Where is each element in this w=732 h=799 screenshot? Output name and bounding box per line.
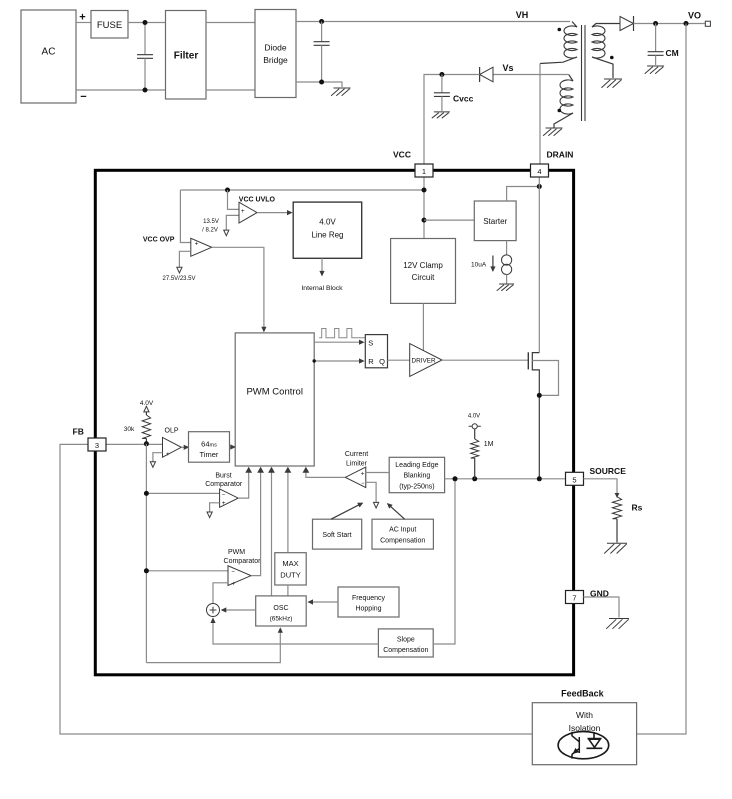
Vs rectifier diode <box>480 67 493 82</box>
wire 12V clamp to driver <box>422 303 424 351</box>
wire bridge negative to ground <box>296 82 342 87</box>
wire VCC pin column <box>423 177 425 239</box>
svg-text:AC: AC <box>42 47 56 58</box>
30k value label <box>124 426 135 433</box>
svg-text:12V Clamp: 12V Clamp <box>403 261 443 270</box>
driver buffer <box>410 344 442 377</box>
junction FB node <box>144 441 149 446</box>
VCC OVP threshold reference <box>177 251 191 273</box>
comparator OLP <box>163 437 182 458</box>
junction VCC column at top net <box>422 188 427 193</box>
svg-text:DRIVER: DRIVER <box>412 358 437 365</box>
pin 1 VCC <box>415 164 433 177</box>
summing mixer <box>207 604 220 617</box>
junction sense row at slope tap <box>453 476 458 481</box>
wire VCC to starter <box>424 219 474 221</box>
svg-text:With: With <box>576 710 593 720</box>
block PWM Control <box>235 333 314 466</box>
wire OLP to timer <box>181 445 189 450</box>
wire PWM comparator output to PWM control <box>251 467 264 576</box>
junction sense row at MOSFET source <box>537 476 542 481</box>
auxiliary polarity dot <box>558 109 562 113</box>
FeedBack label <box>561 689 605 699</box>
plus terminal label <box>79 12 85 24</box>
svg-text:1M: 1M <box>484 441 494 448</box>
svg-text:DUTY: DUTY <box>280 571 300 580</box>
10uA direction arrow <box>490 256 495 273</box>
Burst Comparator label <box>205 473 243 488</box>
ground at Cvcc <box>432 112 450 118</box>
primary polarity dot <box>558 28 562 32</box>
wire to VCC OVP input <box>180 190 190 243</box>
junction FB column at PWM comparator <box>144 568 149 573</box>
svg-text:Hopping: Hopping <box>355 606 381 613</box>
svg-text:FB: FB <box>73 427 84 437</box>
svg-text:Compensation: Compensation <box>380 538 425 545</box>
svg-text:−: − <box>231 569 235 575</box>
pin 3 FB <box>88 438 106 451</box>
svg-text:4: 4 <box>537 167 541 176</box>
block Frequency Hopping <box>338 587 399 617</box>
wire aux winding to Vs diode <box>493 74 569 76</box>
junction at CM capacitor <box>653 21 658 26</box>
svg-text:+: + <box>241 208 245 215</box>
output rectifier diode <box>620 16 634 31</box>
fuse F1 <box>91 11 128 39</box>
CM value label <box>666 48 679 58</box>
wire FUSE to Filter (top rail) <box>128 22 166 24</box>
AC source block <box>21 10 76 103</box>
wire OSC to mixer <box>221 607 256 612</box>
block MAX DUTY <box>275 553 306 585</box>
wire AC to Filter (bottom rail) <box>76 89 166 91</box>
svg-text:DRAIN: DRAIN <box>547 150 574 160</box>
MOSFET body connection <box>532 361 558 396</box>
svg-text:5: 5 <box>572 475 576 484</box>
OVP threshold value label <box>162 276 195 282</box>
junction top rail at filter cap <box>143 20 148 25</box>
svg-text:Line Reg: Line Reg <box>311 231 343 240</box>
wire FB node to PWM comparator <box>146 570 228 572</box>
comparator PWM <box>228 566 251 588</box>
power MOSFET <box>528 352 539 479</box>
svg-text:Limiter: Limiter <box>346 460 368 467</box>
pulse train symbol <box>319 329 368 338</box>
soft start arrow <box>331 503 363 520</box>
resistor 1M <box>471 429 479 479</box>
diode bridge block <box>255 10 296 98</box>
resistor 30k <box>142 412 150 444</box>
svg-text:MAX: MAX <box>282 559 298 568</box>
svg-text:4.0V: 4.0V <box>140 400 154 407</box>
wire current limiter output to PWM control <box>303 467 346 478</box>
wire PWM comparator plus input from mixer <box>213 583 228 604</box>
svg-text:Vs: Vs <box>502 63 513 73</box>
current limiter reference <box>366 482 379 508</box>
svg-text:30k: 30k <box>124 426 135 433</box>
block Leading Edge Blanking <box>389 457 444 492</box>
wire drain column to MOSFET <box>538 177 540 353</box>
wire GND pin to ground <box>584 597 620 618</box>
svg-text:VH: VH <box>516 10 529 20</box>
wire slope compensation to mixer <box>210 617 378 644</box>
node VH label <box>516 10 529 20</box>
wire Filter to Diode Bridge (bottom) <box>206 89 255 91</box>
VO output terminal <box>705 21 710 26</box>
svg-text:27.5V/23.5V: 27.5V/23.5V <box>162 276 195 282</box>
comparator VCC UVLO <box>239 202 257 223</box>
wire LEB to current limiter <box>366 472 389 474</box>
svg-text:Internal Block: Internal Block <box>301 285 343 292</box>
junction VCC column at starter branch <box>422 218 427 223</box>
VCC UVLO label <box>239 196 276 203</box>
svg-text:Diode: Diode <box>264 43 286 53</box>
current source 10uA <box>502 241 512 284</box>
wire VH rail (bridge output to transformer primary) <box>296 21 570 23</box>
ground at diode bridge <box>331 88 350 96</box>
VCC pin label <box>393 150 411 160</box>
wire VO to feedback block <box>637 24 686 735</box>
svg-text:Starter: Starter <box>483 217 507 226</box>
wire OSC to PWM control <box>268 467 275 596</box>
junction VH rail at bulk cap <box>319 19 324 24</box>
wire frequency hopping to OSC <box>307 599 338 604</box>
svg-text:VCC OVP: VCC OVP <box>143 236 175 243</box>
svg-text:OSC: OSC <box>273 605 288 612</box>
pin 7 GND <box>566 591 584 604</box>
svg-text:CM: CM <box>666 48 679 58</box>
svg-text:13.5V: 13.5V <box>203 219 219 225</box>
block Slope Compensation <box>378 629 433 657</box>
svg-text:−: − <box>80 91 86 103</box>
AC input compensation arrow <box>387 503 405 519</box>
1M supply terminal <box>469 424 481 429</box>
block Soft Start <box>313 519 362 549</box>
line filter block <box>166 11 207 100</box>
svg-text:Slope: Slope <box>397 637 415 644</box>
junction sense row at 1M <box>472 476 477 481</box>
wire driver to gate <box>442 359 528 361</box>
ground at CM <box>645 66 664 74</box>
svg-text:VCC: VCC <box>393 150 411 160</box>
svg-text:S: S <box>368 338 373 347</box>
wire Vs diode to VCC pin <box>424 75 480 165</box>
capacitor CM <box>648 24 664 66</box>
wire OVP output to PWM control <box>212 247 267 332</box>
svg-text:OLP: OLP <box>165 427 179 434</box>
bulk capacitor <box>314 22 330 83</box>
svg-text:AC Input: AC Input <box>389 527 416 534</box>
wire latch Q to driver <box>388 359 410 361</box>
secondary polarity dot <box>610 56 614 60</box>
wire FB node down the left column <box>145 444 147 663</box>
svg-text:Leading Edge: Leading Edge <box>395 462 438 469</box>
wire slope compensation to current sense node <box>433 479 455 644</box>
current arrow into Rs <box>615 493 620 498</box>
ground at Rs <box>604 543 627 553</box>
svg-text:Bridge: Bridge <box>263 55 288 65</box>
arrow line reg to internal block <box>319 258 324 276</box>
block AC Input Compensation <box>372 519 433 549</box>
wire FB column to OSC bottom <box>146 627 283 662</box>
svg-text:Comparator: Comparator <box>224 558 262 565</box>
svg-text:Comparator: Comparator <box>205 481 243 488</box>
pin 4 DRAIN <box>531 164 549 177</box>
Cvcc value label <box>453 94 474 104</box>
junction at Cvcc <box>439 72 444 77</box>
SOURCE pin label <box>590 466 627 476</box>
node Vs label <box>502 63 513 73</box>
junction bottom rail at filter cap <box>143 88 148 93</box>
FB pull-up supply arrow <box>144 406 149 412</box>
svg-text:−: − <box>361 481 365 487</box>
IC body outline <box>95 170 573 675</box>
svg-text:Cvcc: Cvcc <box>453 94 474 104</box>
resistor Rs <box>612 497 621 543</box>
svg-text:VCC UVLO: VCC UVLO <box>239 196 276 203</box>
wire PWM control to latch S <box>314 340 364 345</box>
ground at auxiliary winding <box>543 128 562 136</box>
oscillator OSC 65kHz <box>256 596 307 626</box>
10uA value label <box>471 262 487 269</box>
svg-text:VO: VO <box>688 11 701 21</box>
svg-text:(typ-250ns): (typ-250ns) <box>399 484 434 491</box>
wire UVLO output to line regulator <box>257 210 293 215</box>
svg-text:−: − <box>222 492 226 498</box>
transformer secondary winding <box>592 24 620 79</box>
junction at VO feedback tap <box>684 21 689 26</box>
PWM Comparator label <box>224 549 262 565</box>
1M value label <box>484 441 494 448</box>
svg-text:3: 3 <box>95 441 99 450</box>
wire diode to VO terminal <box>634 23 706 25</box>
svg-text:Q: Q <box>379 357 385 366</box>
svg-text:Filter: Filter <box>174 51 199 62</box>
OLP reference <box>150 453 162 468</box>
feedback isolation block <box>532 703 636 765</box>
node VO label <box>688 11 701 21</box>
svg-text:10uA: 10uA <box>471 262 487 269</box>
svg-text:Soft Start: Soft Start <box>322 532 351 539</box>
capacitor across line <box>137 23 153 91</box>
junction FB column at burst <box>144 491 149 496</box>
wire burst output to PWM control <box>238 467 252 498</box>
comparator Current Limiter <box>345 467 366 488</box>
wire to VCC UVLO input <box>228 190 240 209</box>
wire primary bottom to DRAIN pin <box>539 64 541 165</box>
svg-text:Current: Current <box>345 451 368 458</box>
transformer core <box>582 25 586 121</box>
wire VCC internal top net <box>180 189 424 191</box>
svg-text:Timer: Timer <box>200 450 219 459</box>
optocoupler <box>558 732 609 759</box>
minus terminal label <box>80 91 86 103</box>
svg-text:R: R <box>368 357 374 366</box>
svg-text:Compensation: Compensation <box>383 647 428 654</box>
ground at GND pin <box>606 619 629 629</box>
wire FB node to burst comparator <box>146 492 219 494</box>
VCC OVP label <box>143 236 175 243</box>
svg-text:7: 7 <box>572 594 576 603</box>
wire feedback block to FB pin <box>60 444 532 734</box>
junction bridge negative at bulk cap <box>319 80 324 85</box>
svg-text:PWM: PWM <box>228 549 245 556</box>
starter block <box>474 201 516 241</box>
svg-text:1: 1 <box>422 167 426 176</box>
wire timer to PWM control <box>230 444 236 449</box>
UVLO threshold value label <box>202 219 219 234</box>
svg-text:+: + <box>231 580 235 587</box>
pin 5 SOURCE <box>566 472 584 485</box>
svg-text:+: + <box>195 240 199 247</box>
block 12V Clamp Circuit <box>391 239 456 304</box>
transformer primary winding <box>540 22 577 64</box>
svg-text:/ 8.2V: / 8.2V <box>202 227 218 233</box>
ground at current source <box>497 284 514 291</box>
wire FB pin to OLP <box>106 443 163 445</box>
capacitor Cvcc <box>434 75 450 112</box>
DRAIN pin label <box>547 150 574 160</box>
regulator 4.0V Line Reg <box>293 202 362 258</box>
OLP label <box>165 427 179 434</box>
junction top net at UVLO branch <box>225 188 230 193</box>
FB pin label <box>73 427 84 437</box>
svg-text:FUSE: FUSE <box>97 20 122 31</box>
1M pull-up 4.0V label <box>468 413 480 419</box>
svg-text:Frequency: Frequency <box>352 595 386 602</box>
svg-text:+: + <box>222 500 226 507</box>
wire current sense row to SOURCE pin <box>445 478 566 480</box>
SR latch U2 <box>365 335 387 368</box>
junction MOSFET source node <box>537 393 542 398</box>
wire AC to FUSE <box>76 22 91 24</box>
svg-text:+: + <box>166 451 170 458</box>
Current Limiter label <box>345 451 368 467</box>
burst comparator reference <box>207 503 220 518</box>
svg-text:+: + <box>79 12 85 24</box>
wire SOURCE pin to Rs <box>584 479 618 495</box>
Internal Block label <box>301 285 343 292</box>
wire MAX DUTY to OSC <box>287 585 289 596</box>
wire Filter to Diode Bridge (top) <box>206 22 255 24</box>
Rs value label <box>632 503 643 513</box>
junction drain column at starter <box>537 184 542 189</box>
wire starter to drain column <box>507 187 540 202</box>
svg-text:(65kHz): (65kHz) <box>270 616 293 623</box>
VCC UVLO threshold reference <box>224 215 239 235</box>
GND pin label <box>590 589 609 599</box>
svg-text:Circuit: Circuit <box>412 273 435 282</box>
svg-text:Blanking: Blanking <box>403 473 430 480</box>
svg-text:FeedBack: FeedBack <box>561 689 605 699</box>
svg-text:Rs: Rs <box>632 503 643 513</box>
block 64ms Timer <box>189 432 230 463</box>
svg-text:+: + <box>361 470 365 477</box>
comparator Burst <box>220 489 239 507</box>
ground at secondary <box>601 79 622 88</box>
svg-text:PWM Control: PWM Control <box>246 387 302 398</box>
FB pull-up supply 4.0V label <box>140 400 154 407</box>
svg-text:Burst: Burst <box>215 473 231 480</box>
svg-text:4.0V: 4.0V <box>319 218 336 227</box>
comparator VCC OVP <box>191 238 212 256</box>
transformer auxiliary winding <box>554 75 573 129</box>
wire PWM control to latch R <box>313 358 365 363</box>
svg-text:4.0V: 4.0V <box>468 413 480 419</box>
wire MAX DUTY to PWM control <box>285 467 292 553</box>
svg-text:SOURCE: SOURCE <box>590 466 627 476</box>
